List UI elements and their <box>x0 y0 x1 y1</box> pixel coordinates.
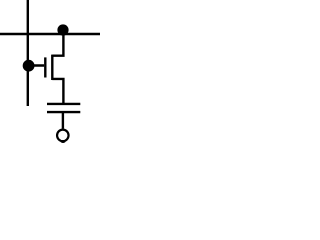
bottom plate <box>47 111 80 113</box>
gate plate <box>44 57 46 77</box>
wire: vertical bus <box>27 0 29 106</box>
terminal bottom nub <box>61 140 66 143</box>
top plate <box>47 103 80 105</box>
wire: source lead <box>52 79 63 104</box>
wire: gate lead <box>28 64 44 66</box>
wire: horizontal supply rail <box>0 33 100 35</box>
terminal (open post) <box>57 130 69 142</box>
transistor Q1 (MOSFET) <box>28 33 64 104</box>
wire: lower lead <box>62 112 64 129</box>
capacitor C1 <box>47 104 80 129</box>
wire: drain lead <box>52 33 63 56</box>
channel line <box>51 55 53 80</box>
node junction dot (gate to bus) <box>23 60 35 72</box>
node junction dot (drain to rail) <box>57 24 68 35</box>
